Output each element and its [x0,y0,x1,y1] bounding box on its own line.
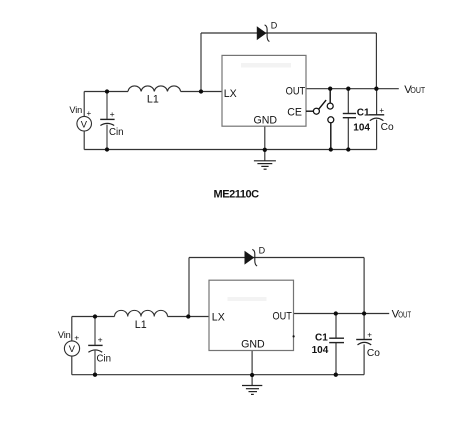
wire Cin bottom stub [94,351,96,375]
svg-text:+: + [110,109,115,119]
svg-text:Co: Co [381,122,394,133]
junction at Cin top (bottom circuit) [93,314,97,318]
wire Cin bottom stub [106,125,108,150]
diode anode triangle [257,27,266,40]
Cin positive plate [100,118,114,120]
wire OUT rail to VOUT [306,88,399,90]
wire OUT rail to VOUT [294,313,390,315]
wire Vin source vertical stubs [71,317,73,375]
wire C1 top stub [347,89,349,114]
wire switch lower riser to bottom rail [330,123,332,149]
capacitor C1 [343,107,371,133]
junction at switch lower riser on bottom rail [329,147,333,151]
svg-text:D: D [271,21,278,31]
junction at Cin bottom (bottom circuit) [93,373,97,377]
Cin curved negative plate [100,123,114,125]
ground [254,161,276,169]
svg-text:Vin: Vin [69,105,82,115]
inductor L1 [128,86,181,106]
wire diode rail right drop to OUT rail [375,33,377,89]
Co positive plate [356,339,372,341]
junction at C1 bottom (bottom circuit) [334,373,338,377]
junction at Co top (bottom circuit) [362,311,366,315]
wire riser LX node to diode rail [200,33,202,92]
wire Cin top stub [106,92,108,119]
svg-text:OUT: OUT [273,311,293,323]
svg-text:GND: GND [254,114,278,126]
svg-text:LX: LX [212,312,225,324]
wire C1 bottom stub [335,343,337,375]
capacitor Co (bottom) [356,331,380,359]
wire switch upper riser from OUT rail [329,89,331,103]
svg-text:V: V [69,343,76,354]
diode D [257,21,278,42]
wire C1 bottom stub [347,118,349,150]
wire GND pin stub to ground [264,126,266,160]
Co positive plate [369,114,385,116]
diode anode triangle [245,251,254,264]
junction at Cin top [105,89,109,93]
voltage source Vin [69,105,91,131]
node VOUT (bottom) [392,309,412,321]
capacitor Co [369,106,394,133]
inductor L1 (bottom) [115,310,168,330]
wire diode rail top [189,257,364,259]
junction at switch riser on OUT rail [328,87,332,91]
diode D (bottom) [245,245,266,266]
junction at GND pin on bottom rail [263,148,267,152]
diode curved cathode bar [265,25,270,42]
svg-text:ME2110C: ME2110C [214,188,260,200]
junction at LX riser [199,89,203,93]
wire diode rail right drop to OUT rail [363,258,365,314]
op-amp U2 chip body (ME2110C) [209,280,294,350]
ground (bottom) [242,386,262,395]
wire diode rail top [201,32,376,34]
svg-text:L1: L1 [135,319,147,331]
Co curved negative plate [358,342,372,345]
switch lever [319,100,326,109]
svg-text:LX: LX [224,88,237,100]
junction at Co top [374,87,378,91]
svg-text:104: 104 [312,345,329,356]
capacitor C1 (bottom) [312,333,344,357]
wire Cin top stub [94,317,96,345]
wire Co top stub [376,89,378,115]
svg-text:C1: C1 [357,107,370,118]
junction at C1 top [346,87,350,91]
switch pole contact [313,108,319,114]
diode curved cathode bar [252,249,257,266]
capacitor Cin (bottom) [88,317,111,375]
svg-text:Cin: Cin [97,354,112,365]
Cin curved negative plate [88,350,102,352]
capacitor Cin [100,92,123,150]
wire ground bottom rail [84,149,376,151]
svg-text:OUT: OUT [410,86,425,95]
svg-text:C1: C1 [315,333,328,344]
wire riser LX node to diode rail [188,258,190,317]
svg-text:V: V [81,118,88,129]
junction at C1 top (bottom circuit) [334,311,338,315]
svg-text:D: D [259,245,266,255]
wire GND pin stub to ground [251,351,253,386]
wire ground bottom rail [72,374,364,376]
wire Vin source vertical stubs [83,92,85,150]
Cin positive plate [88,344,102,346]
wire Co bottom riser [376,120,378,150]
svg-text:Cin: Cin [109,127,124,138]
wire input rail Vin to LX pin [84,91,222,93]
svg-text:+: + [367,331,372,340]
erased text smudge inside U2 [228,297,267,301]
svg-text:104: 104 [353,123,370,134]
voltage source Vin (bottom) [58,330,80,356]
erased text smudge inside U1 [241,63,291,68]
node VOUT [404,84,425,96]
svg-text:Co: Co [367,348,380,359]
svg-text:+: + [87,109,92,118]
svg-text:+: + [98,335,103,345]
svg-text:+: + [74,333,79,343]
junction at C1 bottom [346,147,350,151]
junction at LX riser (bottom circuit) [186,314,190,318]
switch lower throw contact [328,117,334,123]
svg-text:Vin: Vin [58,330,71,340]
wire input rail Vin to LX pin [72,316,209,318]
svg-text:L1: L1 [147,94,159,106]
wire C1 top stub [335,314,337,339]
svg-text:GND: GND [241,339,265,351]
junction at GND pin on bottom rail (bottom circuit) [250,373,254,377]
switch SW1 on CE pin [306,89,334,149]
stray dot on U2 right edge [293,335,295,337]
svg-text:CE: CE [287,106,302,118]
wire CE pin stub [306,110,313,112]
junction at Cin bottom [105,147,109,151]
svg-text:OUT: OUT [398,311,411,320]
svg-text:+: + [379,106,384,115]
op-amp U1 chip body (ME2110C) [222,55,306,126]
switch upper throw contact [327,103,333,109]
Co curved negative plate [370,118,384,121]
wire Co bottom riser [363,344,365,374]
wire Co top stub [363,314,365,340]
svg-text:OUT: OUT [286,86,306,98]
